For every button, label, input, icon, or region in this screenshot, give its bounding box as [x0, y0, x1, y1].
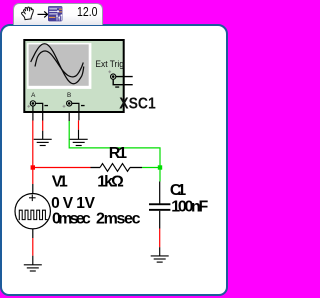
svg-text:C1: C1 [170, 182, 186, 199]
svg-text:V: V [63, 195, 74, 212]
svg-text:2msec: 2msec [96, 211, 141, 228]
svg-text:1kΩ: 1kΩ [97, 174, 124, 191]
svg-text:100nF: 100nF [171, 199, 208, 216]
svg-text:0msec: 0msec [52, 211, 91, 228]
svg-text:Ext Trig: Ext Trig [95, 59, 124, 69]
svg-text:XSC1: XSC1 [119, 95, 156, 112]
svg-text:R1: R1 [109, 145, 127, 162]
svg-text:0: 0 [51, 195, 60, 212]
svg-text:V1: V1 [52, 173, 68, 190]
svg-text:B: B [67, 92, 71, 99]
svg-text:V: V [85, 195, 96, 212]
